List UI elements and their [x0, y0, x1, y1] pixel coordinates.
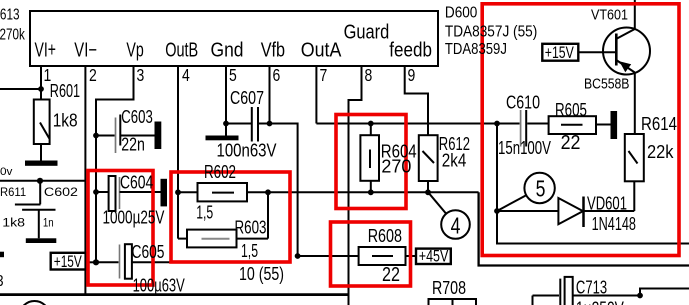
svg-text:5: 5 [229, 66, 237, 85]
svg-text:R613: R613 [0, 5, 20, 23]
svg-text:22: 22 [561, 132, 581, 154]
svg-text:100µ63V: 100µ63V [133, 276, 185, 296]
svg-text:BC558B: BC558B [584, 76, 630, 92]
svg-text:4: 4 [451, 213, 461, 239]
svg-text:C605: C605 [132, 242, 165, 262]
svg-text:+45V: +45V [419, 248, 449, 266]
svg-text:R605: R605 [555, 100, 587, 121]
svg-text:C602: C602 [44, 185, 78, 199]
svg-text:feedb: feedb [389, 38, 432, 61]
svg-text:C713: C713 [576, 278, 607, 298]
svg-text:6: 6 [273, 66, 281, 85]
svg-text:5: 5 [536, 176, 546, 202]
svg-text:15n100V: 15n100V [498, 138, 551, 159]
svg-text:VT601: VT601 [591, 7, 628, 23]
svg-text:1k8: 1k8 [2, 216, 25, 230]
svg-text:9: 9 [408, 66, 416, 85]
svg-text:C603: C603 [121, 107, 153, 128]
svg-text:VI+: VI+ [35, 38, 56, 61]
svg-text:R708: R708 [432, 278, 466, 298]
svg-text:Gnd: Gnd [211, 38, 244, 60]
svg-text:C604: C604 [120, 173, 153, 193]
svg-text:TDA8357J (55): TDA8357J (55) [445, 24, 537, 41]
svg-text:Guard: Guard [344, 20, 390, 43]
svg-text:1,5: 1,5 [196, 203, 213, 223]
svg-text:R601: R601 [50, 82, 80, 102]
svg-text:D600: D600 [445, 5, 477, 22]
svg-text:3: 3 [0, 273, 4, 290]
svg-text:10 (55): 10 (55) [239, 264, 284, 284]
svg-text:C607: C607 [230, 88, 264, 108]
svg-text:Vp: Vp [126, 38, 143, 61]
svg-text:7: 7 [320, 66, 328, 85]
svg-text:R602: R602 [204, 162, 236, 183]
svg-text:1,5: 1,5 [241, 242, 258, 262]
svg-text:3: 3 [137, 66, 145, 85]
svg-text:OutA: OutA [301, 40, 342, 62]
svg-text:1N4148: 1N4148 [592, 215, 637, 235]
svg-text:0v: 0v [0, 167, 13, 179]
svg-text:R614: R614 [641, 114, 677, 135]
svg-text:100n63V: 100n63V [217, 140, 278, 161]
svg-text:R603: R603 [235, 217, 267, 238]
svg-text:2k4: 2k4 [442, 150, 467, 171]
svg-text:VI−: VI− [74, 38, 97, 61]
svg-text:C610: C610 [506, 93, 540, 113]
svg-text:22k: 22k [647, 141, 674, 162]
svg-text:1k8: 1k8 [53, 110, 78, 131]
svg-text:270: 270 [381, 155, 411, 176]
svg-text:1n: 1n [43, 217, 54, 230]
svg-text:R608: R608 [368, 225, 402, 246]
svg-text:+15V: +15V [54, 253, 82, 271]
svg-text:22n: 22n [121, 135, 145, 155]
svg-text:R611: R611 [0, 186, 26, 199]
svg-text:1µ250V: 1µ250V [576, 299, 624, 305]
svg-text:270k: 270k [0, 24, 26, 42]
svg-text:Vfb: Vfb [261, 39, 285, 61]
svg-text:VD601: VD601 [587, 193, 627, 214]
svg-text:4: 4 [182, 66, 190, 85]
svg-text:22: 22 [382, 262, 400, 285]
svg-text:+15V: +15V [545, 44, 574, 62]
svg-text:OutB: OutB [165, 38, 198, 61]
svg-text:8: 8 [365, 66, 373, 85]
svg-text:1000µ25V: 1000µ25V [103, 207, 165, 228]
svg-text:TDA8359J: TDA8359J [445, 41, 507, 58]
svg-text:1: 1 [44, 66, 52, 85]
svg-text:2: 2 [89, 66, 97, 85]
